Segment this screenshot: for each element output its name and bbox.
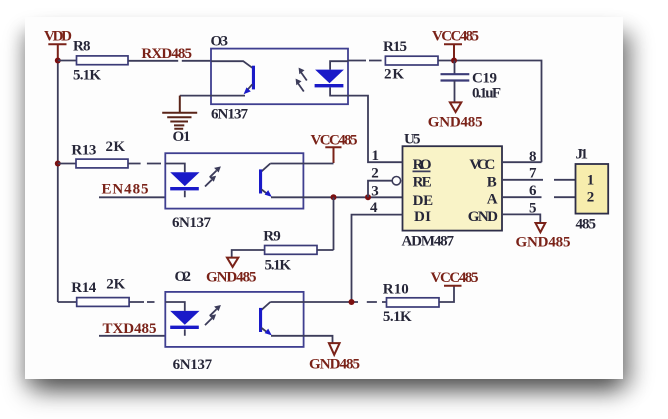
ground O1 earth symbol [162,96,211,145]
wire R15 to pin8 corner [438,61,542,163]
optocoupler middle 6N137 body [165,153,303,231]
svg-text:2K: 2K [106,276,125,292]
optocoupler O3 6N137 body [211,34,349,123]
pin 8 label VCC [502,149,542,165]
svg-text:B: B [487,174,497,190]
svg-text:485: 485 [576,217,597,233]
wire R13 to middle opto [128,163,161,165]
wire R9 riser [333,197,335,250]
svg-text:5.1K: 5.1K [73,68,101,84]
svg-text:R9: R9 [263,229,281,245]
wire O2 collector to R10 [304,301,387,303]
node VDD/R8 junction [55,58,61,64]
svg-text:GND485: GND485 [428,115,483,131]
resistor R13 [71,139,128,168]
svg-text:R14: R14 [71,280,97,296]
svg-text:VCC485: VCC485 [432,28,479,44]
svg-text:RE: RE [413,174,432,190]
wire VDD rail corner to R14 [58,301,77,303]
svg-text:VDD: VDD [44,29,72,45]
net label TXD485 with stub wire [99,321,165,337]
arrows light into O3 LED [296,68,307,92]
ground GND485 at R9 [206,258,257,286]
node VDD/R13 junction [55,161,61,167]
svg-text:J1: J1 [576,147,589,163]
pin 2 wire RE with bubble [368,165,401,197]
svg-text:GND485: GND485 [309,357,360,373]
wire R10 to VCC485 [439,286,454,302]
pin names inside U5 [413,157,499,225]
resistor R8 [73,39,128,84]
resistor R15 [383,39,438,83]
connector J1 [576,147,609,233]
resistor R10 [383,281,439,325]
wire O2 emitter to ground [304,336,333,343]
wire O3 to R15 [348,60,382,62]
capacitor C19 [441,61,502,103]
svg-text:6N137: 6N137 [173,357,213,373]
pin 7 wire B to J1 [502,165,576,181]
svg-text:4: 4 [370,200,378,216]
wire VDD rail [57,61,59,303]
wire R14 to opto O2 [129,301,154,303]
svg-text:U5: U5 [404,132,421,148]
svg-text:TXD485: TXD485 [103,321,157,337]
svg-text:O2: O2 [175,269,192,285]
pin 6 wire A to J1 [502,183,576,199]
power VCC485 bottom [431,270,479,286]
svg-text:GND485: GND485 [206,269,257,285]
svg-text:6N137: 6N137 [172,215,212,231]
svg-text:3: 3 [371,184,379,200]
svg-text:A: A [487,192,498,208]
transistor inside O2 [259,302,304,336]
pin 4 wire DI down to O2 [352,200,403,302]
svg-text:2: 2 [371,165,379,181]
ground GND485 at O2 emitter [309,343,360,373]
node VCC485/C19 junction [451,58,457,64]
wire VDD to R13 [58,163,76,165]
svg-text:ADM487: ADM487 [402,233,455,249]
svg-text:DE: DE [413,193,434,209]
svg-text:EN485: EN485 [102,182,149,198]
resistor R9 [232,229,334,274]
LED inside O3 [315,61,348,95]
node pin2/pin3 junction [365,194,371,200]
svg-text:C19: C19 [472,71,497,87]
pin 1 wire RO to O3 LED [348,96,403,164]
svg-text:VCC485: VCC485 [431,270,479,286]
svg-text:DI: DI [414,209,431,225]
transistor inside O3 [211,61,255,95]
svg-text:RXD485: RXD485 [141,46,192,62]
diode LED inside middle opto [165,164,199,198]
svg-text:VCC: VCC [469,157,495,173]
arrows light from O2 LED [205,305,221,325]
power VCC485 top [432,28,479,59]
svg-text:R10: R10 [383,281,409,297]
svg-text:1: 1 [587,173,595,189]
svg-text:2: 2 [587,189,595,205]
wire R8 to VDD [58,60,77,62]
ground GND485 at pin5 [516,223,571,250]
power VDD [44,29,72,60]
svg-text:O3: O3 [211,34,229,50]
svg-text:5.1K: 5.1K [265,258,292,274]
wire opto emitter to U5 pin3 [303,196,402,198]
svg-text:0.1uF: 0.1uF [472,86,501,102]
pin 5 wire GND [502,200,540,222]
wire R8 to O3, net RXD485 [128,46,211,62]
svg-text:2K: 2K [106,139,126,155]
node emitter/R9 junction [331,194,337,200]
svg-text:R13: R13 [71,143,96,159]
svg-text:GND: GND [468,209,498,225]
diode LED inside O2 [165,302,199,336]
resistor R14 [71,276,129,306]
power VCC485 middle [303,132,357,163]
ground GND485 under C19 [428,102,483,130]
svg-text:R8: R8 [73,39,91,55]
svg-text:GND485: GND485 [516,234,571,250]
optocoupler O2 6N137 body [165,292,303,373]
svg-text:5.1K: 5.1K [383,309,412,325]
arrows light from middle opto LED [205,166,221,186]
transistor inside middle opto [259,164,303,198]
svg-text:VCC485: VCC485 [311,132,358,148]
svg-text:2K: 2K [384,67,404,83]
node DI/R10 junction [349,299,355,305]
svg-text:O1: O1 [173,129,191,145]
net label EN485 with stub wire [99,182,165,198]
IC U5 ADM487 body [402,132,503,250]
svg-text:6N137: 6N137 [211,107,249,123]
svg-text:R15: R15 [383,39,407,55]
